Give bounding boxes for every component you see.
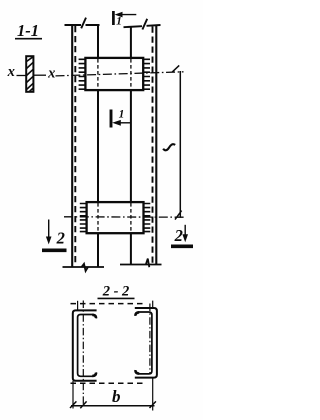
hidden batten plate bottom edge (section 2-2)	[71, 382, 147, 384]
svg-text:2: 2	[56, 228, 65, 247]
svg-text:2 - 2: 2 - 2	[102, 284, 130, 300]
left channel web stub above	[77, 301, 79, 311]
left channel inner contour	[78, 315, 97, 377]
label 1-1	[17, 21, 39, 40]
section cut 2 right bar	[171, 244, 193, 248]
right chord web outer line	[155, 25, 157, 265]
bottom batten plate	[87, 202, 144, 233]
top batten plate	[85, 58, 143, 90]
axis x-x left segment	[17, 75, 27, 77]
b left oblique tick	[70, 401, 76, 408]
right channel axis dash-dot	[149, 304, 151, 374]
left chord bottom break line	[63, 264, 105, 271]
section cut 2 left bar	[42, 248, 67, 252]
right chord bottom break line	[120, 259, 162, 268]
section cut 2 right arrow	[182, 225, 188, 242]
svg-text:x: x	[7, 64, 15, 80]
b extension line left	[72, 381, 74, 409]
left chord web inner dashed line	[74, 26, 76, 266]
section cut 1 middle arrow	[112, 120, 130, 126]
left channel axis dash-dot	[82, 301, 84, 407]
dimension l top tick	[172, 65, 179, 72]
svg-text:2: 2	[174, 226, 183, 245]
axis x-x right segment	[34, 74, 46, 76]
right channel outer contour	[135, 308, 157, 378]
b extension line right	[152, 377, 154, 411]
top plate weld ticks left	[79, 59, 85, 89]
section cut 1 top arrow	[115, 12, 137, 18]
top plate axis dash-dot line	[56, 72, 184, 76]
section cut 1 middle bar	[110, 110, 113, 128]
svg-text:b: b	[112, 387, 121, 406]
b right oblique tick	[150, 401, 156, 408]
svg-text:1-1: 1-1	[17, 21, 39, 40]
bottom plate weld ticks left	[80, 204, 86, 232]
left chord web outer line	[71, 25, 73, 267]
b dimension line	[71, 405, 155, 407]
hidden batten plate top edge (section 2-2)	[71, 303, 147, 305]
right chord flange tip hidden in plates	[130, 59, 132, 233]
svg-text:1: 1	[119, 109, 125, 121]
left channel flange tip bulbs	[92, 315, 96, 376]
dimension line l	[179, 71, 181, 218]
svg-text:x: x	[47, 66, 55, 82]
right chord flange tip line	[130, 27, 132, 265]
left channel axis oblique tick	[80, 401, 86, 408]
section cut 2 left arrow	[46, 220, 52, 245]
left chord top break line	[65, 18, 100, 29]
right channel inner contour	[135, 312, 152, 374]
svg-text:1: 1	[116, 16, 122, 28]
underline of label 1-1	[15, 38, 42, 40]
right channel web stub above	[152, 301, 154, 309]
left channel outer contour	[73, 310, 97, 380]
left chord flange tip line	[97, 25, 99, 267]
underline of label 2-2	[98, 297, 135, 299]
plate section hatched rect (1-1 view)	[26, 56, 33, 92]
dimension l bottom tick	[175, 211, 182, 220]
right channel flange tip bulbs	[136, 312, 140, 373]
top plate weld ticks right	[144, 59, 150, 89]
right chord web inner dashed line	[152, 27, 154, 265]
bottom plate axis dash-dot line	[64, 216, 184, 218]
section cut 1 top bar	[112, 11, 115, 25]
left chord flange tip hidden in plates	[97, 59, 99, 233]
bottom plate weld ticks right	[144, 204, 150, 232]
dimension l label	[163, 144, 175, 150]
right chord top break line	[124, 19, 161, 30]
